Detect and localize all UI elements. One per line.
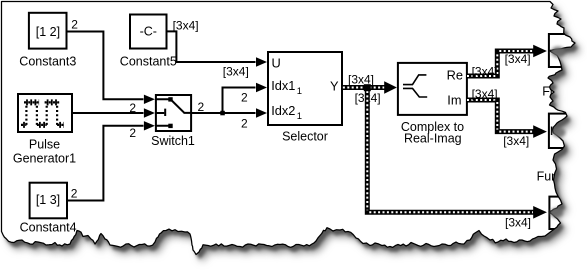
switch input 1 stub bbox=[156, 98, 169, 100]
pulse waveform icon: baseline segments bbox=[21, 102, 64, 125]
switch control tick bbox=[164, 109, 166, 116]
svg-text:2: 2 bbox=[241, 91, 248, 105]
svg-text:2: 2 bbox=[129, 101, 136, 115]
svg-text:[3x4]: [3x4] bbox=[472, 87, 498, 101]
wire Constant3 to Switch1 input 1 bbox=[67, 32, 144, 100]
svg-text:[1 2]: [1 2] bbox=[36, 25, 60, 39]
svg-text:[3x4]: [3x4] bbox=[505, 52, 531, 66]
svg-text:[3x4]: [3x4] bbox=[472, 64, 498, 78]
svg-text:Selector: Selector bbox=[282, 130, 328, 144]
wide matrix wire Selector Y to Complex to Real-Imag bbox=[343, 85, 385, 90]
svg-text:Idx2: Idx2 bbox=[271, 103, 295, 118]
block Constant3 bbox=[29, 13, 67, 49]
svg-text:-C-: -C- bbox=[140, 25, 157, 39]
block Constant4 bbox=[30, 183, 67, 219]
wire branch up to Selector Idx1 bbox=[223, 88, 256, 114]
switch input 2 stub bbox=[156, 112, 164, 114]
complex icon equals lines bbox=[403, 85, 413, 89]
arrowhead at Switch1 input 3 bbox=[144, 121, 155, 130]
svg-text:Constant4: Constant4 bbox=[20, 221, 77, 235]
arrowhead at Switch1 input 1 bbox=[144, 95, 155, 104]
svg-text:[3x4]: [3x4] bbox=[223, 65, 249, 79]
svg-text:[3x4]: [3x4] bbox=[173, 19, 199, 33]
arrowhead at Switch1 input 2 bbox=[144, 108, 155, 117]
block Switch1 bbox=[156, 95, 191, 131]
torn block middle-right inner mark bbox=[551, 127, 553, 136]
svg-text:2: 2 bbox=[198, 100, 205, 114]
torn block top-right bbox=[549, 34, 587, 67]
wire Constant4 to Switch1 input 3 bbox=[67, 126, 143, 201]
arrowhead at middle-right torn block bbox=[533, 125, 547, 138]
complex icon upper fork bbox=[413, 75, 427, 85]
svg-text:Im: Im bbox=[447, 92, 461, 107]
svg-text:Generator1: Generator1 bbox=[13, 152, 76, 166]
block Pulse Generator1 bbox=[18, 94, 72, 132]
torn block middle-right bbox=[549, 114, 587, 148]
switch arm diagonal bbox=[171, 100, 184, 113]
wire Switch1 out to Selector Idx2 bbox=[191, 112, 256, 114]
block Complex to Real-Imag bbox=[398, 63, 467, 115]
switch input 1 contact dot bbox=[168, 97, 172, 101]
torn block bottom-right bbox=[549, 197, 587, 229]
svg-text:2: 2 bbox=[71, 186, 78, 200]
block Constant5 bbox=[130, 15, 167, 49]
svg-text:Re: Re bbox=[447, 68, 463, 83]
svg-text:Switch1: Switch1 bbox=[151, 134, 195, 148]
svg-text:Constant5: Constant5 bbox=[120, 55, 177, 69]
svg-text:2: 2 bbox=[71, 18, 78, 32]
switch input 3 contact dot bbox=[168, 124, 172, 128]
svg-text:1: 1 bbox=[297, 86, 302, 97]
junction dot on Switch1 output bbox=[220, 111, 225, 116]
junction dot on Y wire bbox=[364, 84, 371, 91]
arrowhead at Selector Idx2 bbox=[256, 108, 267, 117]
arrowhead at Selector Idx1 bbox=[256, 83, 267, 92]
svg-text:U: U bbox=[272, 56, 281, 71]
svg-text:[1 3]: [1 3] bbox=[36, 193, 60, 207]
svg-text:Y: Y bbox=[330, 79, 339, 94]
svg-text:2: 2 bbox=[241, 117, 248, 131]
wire Pulse Generator1 to Switch1 input 2 bbox=[73, 112, 144, 114]
pulse waveform icon: vertical dashed edges bbox=[26, 102, 57, 125]
block Selector bbox=[268, 52, 342, 125]
switch output stub bbox=[184, 112, 192, 114]
arrowhead at Selector U bbox=[256, 57, 267, 66]
wide wire Im to middle-right torn block bbox=[467, 100, 534, 132]
svg-text:2: 2 bbox=[129, 126, 136, 140]
svg-text:Idx1: Idx1 bbox=[271, 78, 295, 93]
svg-text:Pulse: Pulse bbox=[29, 138, 60, 152]
svg-text:Constant3: Constant3 bbox=[19, 55, 76, 69]
wide wire branch down from junction bbox=[367, 89, 533, 212]
svg-text:[3x4]: [3x4] bbox=[503, 134, 529, 148]
switch input 3 stub bbox=[156, 125, 169, 127]
wide wire Re to top-right torn block bbox=[467, 51, 534, 76]
wire Constant5 to Selector U bbox=[167, 31, 256, 62]
complex icon lower fork bbox=[413, 88, 428, 97]
arrowhead at bottom-right torn block bbox=[533, 206, 547, 219]
svg-text:[3x4]: [3x4] bbox=[505, 215, 531, 229]
svg-text:1: 1 bbox=[297, 111, 302, 122]
arrowhead at Complex input bbox=[384, 81, 397, 94]
arrowhead at top-right torn block bbox=[533, 45, 547, 58]
svg-text:Real-Imag: Real-Imag bbox=[404, 131, 462, 145]
